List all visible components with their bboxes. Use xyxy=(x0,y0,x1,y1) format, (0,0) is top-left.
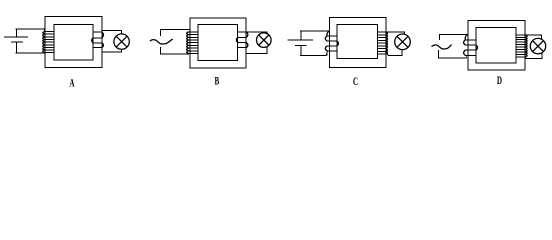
svg-text:A: A xyxy=(69,77,74,90)
svg-text:B: B xyxy=(215,75,220,88)
svg-text:C: C xyxy=(353,76,358,89)
svg-text:D: D xyxy=(497,74,502,87)
